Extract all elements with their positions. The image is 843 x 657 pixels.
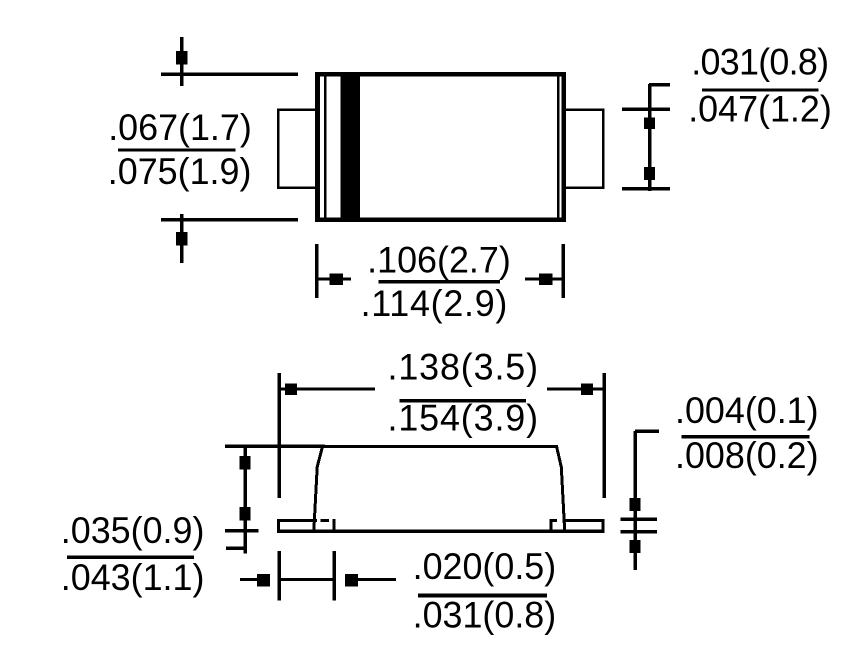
left terminal (top view) xyxy=(277,109,316,190)
inner edge line left xyxy=(324,77,327,218)
dim C left arrow xyxy=(318,274,351,286)
dim A upper arrow xyxy=(176,37,188,86)
cathode band xyxy=(341,77,361,218)
side view body outline xyxy=(314,446,565,531)
dim A extension line top xyxy=(161,73,298,77)
dim G left arrow xyxy=(240,574,270,587)
dim A lower arrow xyxy=(176,214,188,263)
dim E extension line bottom xyxy=(621,530,658,534)
dim E stem line xyxy=(633,431,637,570)
side view lead strip bottom line xyxy=(277,530,605,534)
dim A fraction bar xyxy=(118,149,236,152)
dim D right arrow xyxy=(547,384,604,396)
dim D extension line left xyxy=(277,373,281,498)
dim F bottom bend xyxy=(226,547,245,551)
diode body outline (top view) xyxy=(315,72,566,222)
dim G right arrow xyxy=(345,574,396,587)
dim B stem line xyxy=(648,84,652,191)
dim C extension line left xyxy=(315,244,319,298)
svg-text:.020(0.5): .020(0.5) xyxy=(413,546,557,588)
dim E fraction bar xyxy=(682,435,810,439)
dim C extension line right xyxy=(562,244,566,298)
right terminal (top view) xyxy=(565,109,605,190)
dim D fraction bar xyxy=(400,399,527,403)
side view lead strip top line right xyxy=(563,519,605,522)
side view lead strip top dash xyxy=(321,519,330,522)
dim B top bend xyxy=(649,83,670,87)
svg-text:.031(0.8): .031(0.8) xyxy=(413,594,557,636)
dim A extension line bottom xyxy=(161,218,298,222)
dim E upper arrow head xyxy=(630,498,641,511)
side view lead strip top line left xyxy=(277,519,317,522)
dim B lower arrow head xyxy=(644,167,655,180)
dim F fraction bar xyxy=(67,556,194,560)
svg-text:.047(1.2): .047(1.2) xyxy=(688,88,832,130)
side view strip left end cap xyxy=(277,519,280,533)
svg-text:.004(0.1): .004(0.1) xyxy=(675,390,819,432)
svg-text:.114(2.9): .114(2.9) xyxy=(361,283,508,325)
dim G extension line left xyxy=(277,551,281,601)
svg-text:.067(1.7): .067(1.7) xyxy=(108,106,252,148)
inner edge line right xyxy=(557,77,560,218)
svg-text:.008(0.2): .008(0.2) xyxy=(675,435,819,477)
svg-text:.035(0.9): .035(0.9) xyxy=(61,510,205,552)
svg-text:.106(2.7): .106(2.7) xyxy=(367,239,511,281)
dim G middle segment xyxy=(280,578,333,581)
svg-text:.154(3.9): .154(3.9) xyxy=(388,397,539,439)
dim G extension line right xyxy=(333,551,337,601)
dim F lower arrow head xyxy=(240,507,251,521)
dim C right arrow xyxy=(525,274,563,286)
dim D extension line right xyxy=(602,373,606,498)
svg-text:.043(1.1): .043(1.1) xyxy=(61,557,205,599)
dim B upper arrow head xyxy=(644,118,655,130)
dim B extension line top xyxy=(622,108,670,112)
side view strip right end cap xyxy=(602,519,605,533)
svg-text:.138(3.5): .138(3.5) xyxy=(388,346,539,388)
dim F extension line bottom xyxy=(225,529,259,533)
dim E lower arrow head xyxy=(630,540,641,553)
svg-text:.031(0.8): .031(0.8) xyxy=(691,41,828,83)
dim G fraction bar xyxy=(418,594,547,598)
dim F stem upper arrow xyxy=(240,445,251,554)
dim E extension line top xyxy=(621,518,658,522)
side view right foot mark xyxy=(550,519,558,530)
dim D left arrow xyxy=(279,384,375,396)
dim F extension line top xyxy=(225,445,325,449)
dim B fraction bar xyxy=(702,89,819,92)
dim B extension line bottom xyxy=(622,187,670,191)
svg-text:.075(1.9): .075(1.9) xyxy=(108,151,252,193)
dim E top bend xyxy=(635,430,659,434)
dim C fraction bar xyxy=(379,280,501,284)
side view left foot tick xyxy=(333,519,336,531)
